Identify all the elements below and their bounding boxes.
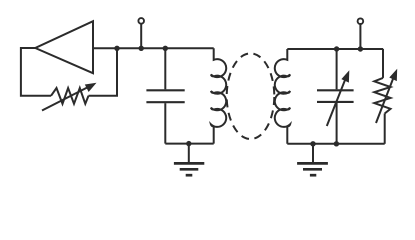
wire amp apex input to left	[21, 48, 51, 96]
resistor R2 vertical zigzag	[374, 78, 390, 114]
capacitor C2 top plate	[317, 89, 354, 91]
wire feedback to bus junction	[89, 48, 118, 96]
wire amp output (base) to bus	[93, 47, 214, 49]
node junction dot capacitor C2 top	[334, 46, 339, 51]
node junction dot terminal 1	[139, 46, 144, 51]
capacitor C2 variable top lead	[336, 49, 338, 89]
capacitor C2 bottom lead	[336, 103, 338, 144]
terminal T1 open circle	[138, 18, 144, 24]
node junction dot ground 1	[186, 141, 191, 146]
node junction dot capacitor C1 top	[163, 46, 168, 51]
node junction dot feedback	[114, 46, 119, 51]
op-amp U1 amplifier triangle pointing left	[35, 21, 93, 73]
terminal T2 stem	[359, 25, 361, 49]
inductor L1 primary winding	[211, 48, 226, 143]
resistor R2 variable lead top	[382, 49, 384, 78]
inductor L2 secondary winding	[275, 49, 290, 144]
capacitor C1 top plate	[146, 89, 184, 91]
wire bottom bus right tank	[287, 143, 384, 145]
arrow of variable resistor R2	[376, 76, 394, 124]
node junction dot ground 2	[310, 141, 315, 146]
node junction dot capacitor C2 bottom	[334, 141, 339, 146]
arrow of variable resistor R1	[42, 86, 90, 110]
node junction dot terminal 2	[358, 46, 363, 51]
terminal T1 stem	[140, 24, 142, 48]
capacitor C2 bottom plate	[317, 101, 354, 103]
wire bottom bus left tank	[165, 143, 213, 145]
ground 1	[174, 144, 204, 176]
terminal T2 open circle	[358, 18, 364, 24]
capacitor C1 bottom lead	[164, 103, 166, 143]
ground 2	[297, 144, 328, 175]
resistor R2 bottom lead	[384, 114, 386, 144]
arrow of variable capacitor C2	[327, 76, 347, 126]
capacitor C1 bottom plate	[146, 101, 184, 103]
resistor R1 variable feedback zigzag	[51, 88, 89, 104]
transformer core dashed ellipse	[227, 53, 275, 139]
wire top bus right tank	[287, 48, 383, 50]
capacitor C1 top lead	[164, 48, 166, 89]
